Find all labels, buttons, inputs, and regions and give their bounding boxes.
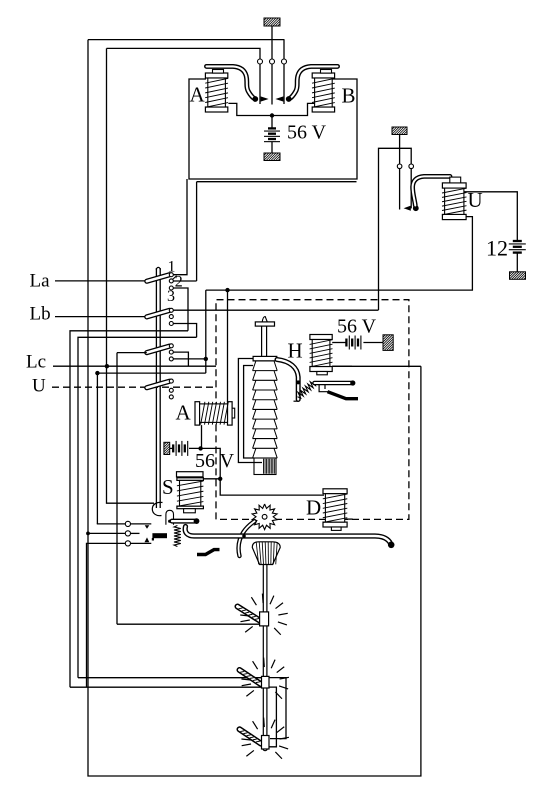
- wire battery stem top: [271, 116, 273, 128]
- wire deck2-1 long to U-section: [173, 309, 378, 311]
- label 2: [175, 274, 183, 291]
- contact dot right spring: [286, 96, 292, 102]
- battery B2 12V: [509, 241, 526, 253]
- column bottom comb block: [254, 458, 276, 475]
- S latch hook: [152, 502, 162, 515]
- pawl ribbon to star: [239, 521, 255, 556]
- wire to wiper arm 2 lower: [70, 686, 262, 688]
- H retractile spring zigzag: [298, 382, 316, 398]
- wire coil H bottom out: [332, 365, 352, 367]
- junction dot x97: [95, 371, 99, 375]
- junction dot deck3-3: [204, 357, 208, 361]
- wiper arm 3: [240, 729, 270, 749]
- wire Lc feed: [53, 365, 216, 367]
- dashed enclosure box: [216, 300, 409, 520]
- svg-text:A: A: [176, 401, 192, 425]
- wiper paddle deck 3 (Lc): [147, 346, 170, 353]
- contact black wedge bottom: [145, 537, 150, 542]
- selector shaft: [156, 267, 160, 508]
- column rack stack: [253, 361, 278, 458]
- contact cU-left: [397, 164, 402, 210]
- wire deck3 feed left corner: [117, 352, 147, 354]
- ground G1 top: [256, 18, 290, 40]
- coil H cap bottom: [317, 372, 328, 375]
- label B: [342, 84, 356, 108]
- label D: [306, 496, 321, 520]
- wire Lc/H horizontal right segment: [332, 365, 421, 367]
- svg-text:B: B: [342, 84, 356, 108]
- svg-text:A: A: [190, 83, 206, 107]
- ratchet star wheel: [252, 504, 277, 530]
- coil A magnet (horizontal): [195, 402, 232, 425]
- contact deck1-3: [169, 286, 173, 290]
- contact cU-right: [409, 164, 414, 208]
- junction dot S tap: [218, 477, 222, 481]
- S lever bar: [172, 518, 199, 524]
- label 1: [168, 259, 176, 276]
- wire bus y330 to left bus: [70, 331, 188, 687]
- outer frame left/bottom/right: [88, 40, 421, 776]
- contact c-left of relay AB: [258, 59, 263, 104]
- spring ribbon from coil A to contact dot: [207, 66, 255, 98]
- label Lb: [30, 304, 51, 325]
- svg-text:Lb: Lb: [30, 304, 51, 325]
- coil A cap: [213, 70, 224, 74]
- armature arrow left (points right): [261, 96, 269, 101]
- contact deck3-2: [169, 350, 173, 354]
- wire battery to S/D riser: [189, 448, 324, 495]
- svg-text:3: 3: [167, 288, 175, 305]
- long arm ribbon: [185, 527, 394, 549]
- wire deck3-2 down to Lc: [173, 352, 188, 366]
- wire U-section top horizontal: [379, 148, 412, 310]
- black flag at S: [197, 550, 220, 555]
- wire coil D right stub: [346, 518, 353, 520]
- svg-text:D: D: [306, 496, 321, 520]
- wire y373 cross link: [97, 373, 205, 524]
- column stem: [262, 326, 267, 356]
- contact deck3-3: [169, 357, 173, 361]
- sunburst wiper 1: [240, 594, 288, 635]
- wire to wiper arm 1: [117, 623, 260, 625]
- label A: [190, 83, 206, 107]
- svg-text:U: U: [32, 376, 46, 397]
- wire bus under AB coils: [228, 103, 314, 115]
- svg-text:56 V: 56 V: [337, 316, 377, 338]
- drive cone: [252, 542, 280, 565]
- armature arrow right (points left): [275, 96, 283, 101]
- label La: [30, 271, 51, 292]
- coil B cap: [321, 70, 332, 74]
- label H: [288, 339, 303, 363]
- contact deck4-2: [169, 388, 173, 392]
- loop outer from arm2: [269, 678, 286, 739]
- junction dot battery-A: [198, 446, 202, 450]
- svg-text:S: S: [162, 475, 174, 499]
- contact deck4-1: [169, 379, 173, 383]
- loop inner from arm2: [268, 687, 276, 747]
- junction dot pawl-ribbon: [242, 534, 246, 538]
- wire coil U bottom to long horizontal: [206, 217, 473, 291]
- wiper shaft: [263, 565, 268, 751]
- wire battery 12 to ground: [516, 253, 518, 272]
- spring ribbon from coil B to contact dot: [289, 66, 337, 98]
- junction dot coil A top: [225, 288, 229, 292]
- coil U cap: [450, 177, 461, 183]
- label U left: [32, 376, 46, 397]
- svg-text:Lc: Lc: [26, 352, 46, 373]
- wire deck1-3 to bus188: [173, 288, 188, 331]
- label 56 V at H: [337, 316, 377, 338]
- wiper paddle deck 2 (Lb): [147, 310, 170, 317]
- wire S tap: [204, 478, 221, 480]
- wire ground to battery mid: [170, 447, 173, 449]
- wire deck3-3 to riser206: [173, 358, 206, 360]
- svg-text:56 V: 56 V: [195, 450, 235, 472]
- label 56 V mid: [195, 450, 235, 472]
- wiper arm 2: [240, 670, 270, 688]
- wiper paddle deck 1 (La): [147, 275, 170, 282]
- wire coil A down to battery: [201, 425, 203, 448]
- ribbon column to H spring: [277, 360, 298, 402]
- coil H: [310, 335, 333, 372]
- contact circle line-b: [88, 531, 140, 536]
- ground G3 for U relay: [385, 127, 417, 148]
- wire left bus x107: [107, 48, 155, 503]
- ground G4 below battery 12: [502, 272, 534, 280]
- relay AB frame box: [189, 79, 357, 179]
- wire riser 196 from AB area: [196, 182, 198, 281]
- H armature bar: [315, 380, 356, 385]
- wire AB bottom link: [197, 181, 357, 183]
- sunburst wiper 3: [241, 718, 289, 759]
- wire right contact drop: [283, 39, 285, 59]
- battery B1 56V: [264, 128, 280, 141]
- svg-text:12: 12: [486, 236, 508, 261]
- wire U feed dashed: [52, 386, 216, 388]
- junction dot battery tap: [270, 113, 274, 117]
- wire coil U to battery 12: [464, 192, 517, 240]
- wire riser 206: [205, 290, 207, 373]
- wire U ground stem to contact: [399, 148, 401, 164]
- coil B top: [312, 73, 335, 112]
- battery B4 56V mid: [173, 441, 188, 456]
- wire ground stem to middle contact: [271, 40, 273, 59]
- label Lc: [26, 352, 46, 373]
- contact deck4-3: [169, 395, 173, 399]
- column collar: [253, 356, 277, 361]
- contact circle line-c: [87, 541, 152, 687]
- coil D: [323, 489, 348, 527]
- wire coil H to battery: [332, 342, 345, 344]
- coil S: [177, 478, 204, 509]
- junction dot on H ribbon: [296, 380, 300, 384]
- wire top horizontal from left frame to right contact: [88, 39, 284, 41]
- wire deck2-3 to riser196: [173, 324, 196, 338]
- label S: [162, 475, 174, 499]
- contact black wedge top: [145, 525, 150, 529]
- contact deck3-1: [169, 344, 173, 348]
- H armature step: [319, 385, 328, 392]
- battery B3 56V at H: [346, 336, 361, 350]
- svg-text:56 V: 56 V: [287, 122, 327, 144]
- wiper arm 1: [238, 607, 269, 626]
- coil D cap bottom: [331, 527, 341, 530]
- wire deck1-1 riser to relay AB box: [173, 179, 187, 275]
- wire coil A up to y290: [227, 290, 229, 402]
- wire deck1-2 link: [173, 280, 196, 282]
- column frame wires: [238, 359, 262, 463]
- contact dot left spring: [252, 96, 258, 102]
- contact deck2-3: [169, 322, 173, 326]
- wire battery H to ground: [363, 342, 383, 344]
- arrow on U contact (points left): [404, 206, 411, 211]
- ground G5 at H: [367, 335, 409, 351]
- sunburst wiper 2: [241, 658, 289, 699]
- spring ribbon from coil U cap to contact dot: [413, 176, 450, 205]
- wire battery to ground: [271, 142, 273, 153]
- contact dot U spring: [413, 205, 419, 211]
- coil S cap bottom: [184, 509, 196, 513]
- contact circle line-a: [97, 521, 152, 526]
- label 12: [486, 236, 508, 261]
- wire Lb feed: [55, 316, 147, 318]
- wire second horizontal to left contact: [107, 48, 261, 59]
- label U right: [468, 188, 483, 212]
- wire La feed: [55, 280, 147, 282]
- S lever pivot dot: [168, 520, 171, 523]
- contact c-right of relay AB: [282, 59, 287, 104]
- wiper paddle deck 4 (U): [147, 381, 170, 388]
- label A mid: [176, 401, 192, 425]
- S lever return spring: [174, 526, 181, 547]
- coil A cap right: [232, 408, 235, 418]
- label 56 V top: [287, 122, 327, 144]
- contact deck2-2: [169, 315, 173, 319]
- ground G2 below battery: [257, 153, 289, 161]
- svg-text:H: H: [288, 339, 303, 363]
- junction dot line-b on x88: [86, 532, 90, 536]
- coil U: [442, 183, 467, 220]
- coil S armature plate: [177, 472, 204, 477]
- contact c-mid of relay AB: [270, 59, 275, 105]
- ground G6 mid: [152, 442, 183, 454]
- svg-text:La: La: [30, 271, 51, 292]
- contact black bar: [152, 533, 167, 540]
- H armature black flag: [328, 392, 359, 399]
- contact deck2-1: [169, 308, 173, 312]
- wire x117 down to wiper 1: [116, 353, 118, 625]
- coil A top: [205, 73, 228, 112]
- contact deck1-2: [169, 276, 176, 283]
- wire bus y337 to left bus: [78, 337, 197, 677]
- column T-handle: [255, 317, 274, 327]
- label 3: [167, 288, 175, 305]
- S lever post: [166, 510, 174, 525]
- wire to wiper arm 2 upper: [78, 677, 262, 679]
- contact deck1-1: [169, 273, 173, 277]
- junction dot Lc x107: [105, 364, 109, 368]
